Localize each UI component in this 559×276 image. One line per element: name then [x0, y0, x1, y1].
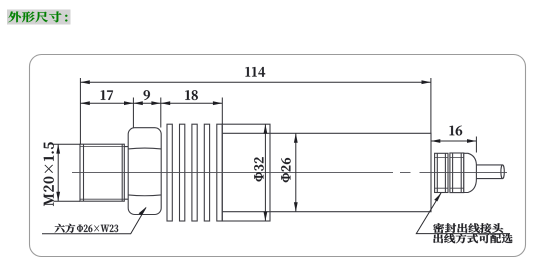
dim text phi32 [254, 157, 263, 181]
label 出线方式可配选 [433, 234, 512, 243]
nut facet line upper [128, 147, 161, 150]
heat sink fin 3 [192, 124, 197, 221]
dim text phi26 [281, 158, 290, 182]
18 arrows [161, 101, 170, 105]
dim line M20 vertical [57, 144, 59, 201]
dim line 114 [80, 81, 431, 83]
heat sink fin 5 [217, 124, 222, 221]
leader left: underline + diagonal to nut [42, 208, 146, 234]
thread minor dia top [80, 146, 124, 148]
dim line phi32 vertical [264, 124, 266, 221]
title colon [65, 15, 67, 22]
thread minor dia bottom [80, 198, 124, 200]
dim line 16 [431, 140, 477, 142]
dim text 9 [144, 90, 150, 100]
cable gland ring 1 [435, 153, 448, 192]
extension line x133 [132, 98, 134, 128]
thread relief line left [83, 144, 85, 201]
phi26 arrows [294, 133, 298, 142]
cable gland ring 2 [450, 153, 464, 193]
heat sink fin 1 [167, 124, 172, 221]
phi32 arrows [264, 124, 268, 133]
16 arrows [431, 139, 440, 143]
M20 arrows [56, 144, 60, 153]
dim text 17 [101, 90, 113, 100]
114 arrows [80, 80, 89, 84]
phi32 collar [222, 124, 270, 221]
M20 extension lines [54, 144, 81, 201]
leader right: underline + diagonal to gland [416, 193, 510, 234]
17 arrows [80, 101, 89, 105]
label phi26xW23 [77, 225, 118, 232]
heat sink fin 4 [204, 124, 209, 221]
9 arrows [133, 101, 142, 105]
extension line left x80 [79, 78, 81, 144]
centerline (on top of fills) [72, 172, 507, 174]
nut facet line lower [128, 194, 161, 197]
title highlight background [7, 10, 71, 25]
thread M20x1.5 outer body [80, 144, 124, 201]
dim text 114 [246, 67, 266, 77]
hex nut [128, 128, 161, 215]
leader arrow right [434, 193, 441, 202]
label 密封出线接头 [433, 223, 503, 233]
dim line phi26 vertical [295, 133, 297, 211]
extension line x161 [160, 98, 162, 128]
thread neck to nut [124, 147, 128, 200]
leader arrow left [139, 207, 147, 215]
dim line 17-9-18 [80, 102, 222, 104]
dim text 18 [185, 90, 197, 100]
drawing frame [30, 55, 526, 257]
label 六方 [55, 224, 76, 233]
phi26 main body [222, 133, 431, 211]
extension line x476.4 [475, 137, 477, 153]
cable [476, 165, 502, 179]
extension line x222 [221, 98, 223, 125]
extension line right x431 [430, 78, 432, 133]
dim text M20x1.5 [44, 142, 54, 206]
heat sink fin 2 [180, 124, 185, 221]
arrowheads [56, 80, 476, 221]
gland chamfer lines [435, 158, 464, 189]
title 外形尺寸 [9, 11, 62, 22]
thread relief line right [121, 144, 123, 201]
gland end cap dome [464, 153, 477, 192]
cable end cap [501, 165, 504, 179]
dim text 16 [450, 126, 463, 136]
